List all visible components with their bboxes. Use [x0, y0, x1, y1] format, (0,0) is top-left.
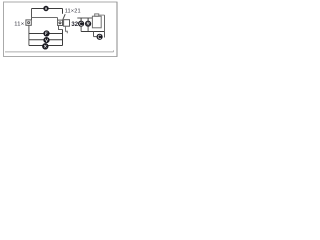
- wire bottom right tick: [113, 50, 115, 52]
- meter M3 (bottom right): [97, 34, 103, 40]
- ammeter A1 (top): [43, 6, 48, 11]
- svg-text:11×21: 11×21: [65, 8, 81, 14]
- meter M2 (pair right): [85, 21, 91, 27]
- wire ladder rung 1: [29, 33, 63, 35]
- wire sub-loop into meter M3: [94, 36, 97, 38]
- wire stem meter M1: [80, 18, 82, 21]
- box R1 with motor symbol: [26, 20, 31, 25]
- wire step from box K2 down: [66, 27, 68, 34]
- wire step from box K1 down: [59, 26, 63, 30]
- svg-text:11×: 11×: [14, 21, 24, 27]
- wire ladder rung 3: [29, 45, 63, 47]
- wire left vertical upper: [31, 9, 33, 20]
- wire from box tab to right bus: [99, 14, 105, 16]
- meter V1 (rung 1): [44, 31, 49, 36]
- meter V2 (rung 2): [44, 37, 49, 42]
- meter M1 (pair left): [78, 21, 84, 27]
- wire stem below meter M1: [80, 27, 82, 32]
- wire stem meter M2: [87, 18, 89, 21]
- wire meter row horizontal: [77, 17, 92, 19]
- box K2: [64, 20, 70, 27]
- wire right bus upper vertical: [62, 9, 64, 14]
- wire inner loop horizontal: [32, 17, 58, 19]
- wire sub-loop right vertical: [104, 32, 106, 38]
- wire bottom light horizontal: [5, 51, 114, 53]
- wire sub-loop left vertical: [93, 32, 95, 37]
- wire ladder rung 2: [29, 39, 63, 41]
- tab on top of box B1: [95, 14, 99, 16]
- wire right bus lower vertical: [62, 30, 64, 46]
- border right edge darker: [116, 2, 118, 57]
- box B1 (right component): [92, 16, 101, 28]
- switch S1 lever (open): [63, 14, 65, 20]
- wire left branch vertical: [28, 25, 30, 45]
- dot inside box K1: [59, 22, 61, 24]
- box K1: [58, 20, 63, 25]
- wire lower-right horizontal: [81, 31, 104, 33]
- meter V3 (rung 3): [42, 43, 48, 49]
- svg-text:32: 32: [71, 22, 78, 28]
- wire top horizontal: [32, 8, 63, 10]
- wire feed into box K1: [57, 18, 59, 21]
- wire stem below meter M2: [87, 27, 89, 32]
- border frame: [4, 2, 118, 57]
- wire right bus from tab down: [104, 15, 106, 31]
